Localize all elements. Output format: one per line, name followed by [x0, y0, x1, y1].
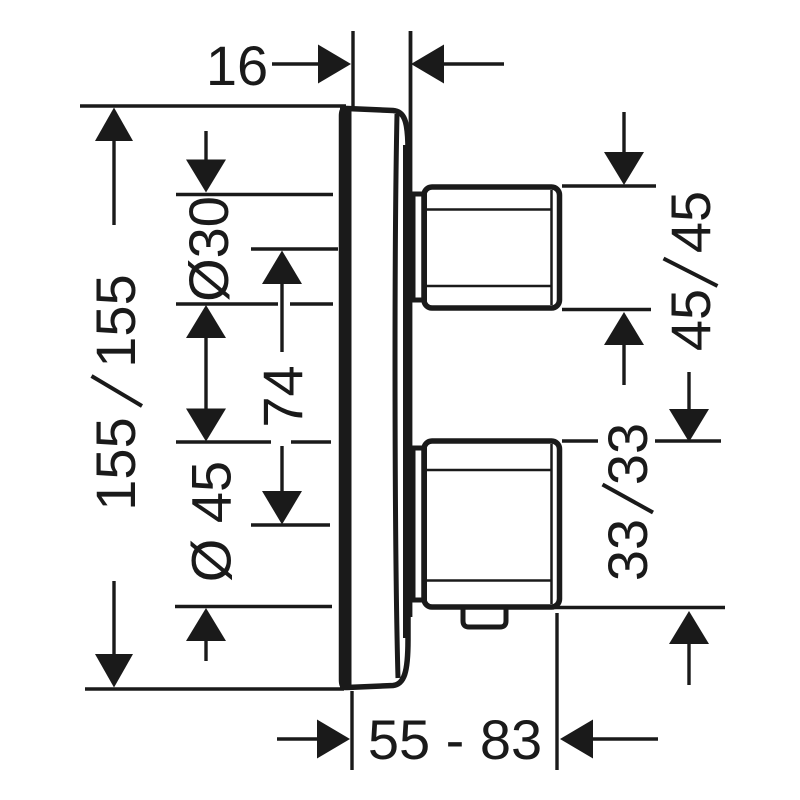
select button tab under bottom handle — [463, 609, 506, 627]
svg-text:45: 45 — [659, 191, 722, 253]
svg-text:Ø30: Ø30 — [177, 196, 240, 302]
bottom handle neck — [413, 448, 425, 600]
wall plane line (right of plate) — [409, 31, 413, 617]
bottom handle inner chamfer lines — [427, 469, 552, 472]
dimension Ø30 (neck diameter, upper left) — [204, 131, 207, 161]
top handle neck — [413, 194, 425, 300]
top handle body — [424, 187, 560, 308]
svg-text:16: 16 — [206, 34, 268, 97]
plate left face (thick bar) — [340, 107, 352, 690]
svg-text:155: 155 — [84, 417, 147, 510]
dimension 155/155 (overall height, left) — [80, 104, 346, 107]
dimension Ø45 (bottom handle diameter, lower left) — [186, 409, 226, 442]
svg-text:55 - 83: 55 - 83 — [368, 708, 542, 771]
bottom handle body — [424, 441, 560, 607]
svg-text:Ø 45: Ø 45 — [180, 461, 243, 582]
plate face extension line (top) — [351, 31, 354, 107]
svg-text:33: 33 — [596, 423, 659, 485]
svg-text:45: 45 — [659, 289, 722, 351]
plate front silhouette line — [395, 114, 398, 678]
svg-text:74: 74 — [251, 365, 314, 427]
escutcheon plate outline — [342, 109, 409, 688]
svg-text:33: 33 — [596, 519, 659, 581]
dimension 33/33 (bottom handle, right) — [687, 372, 690, 410]
top handle inner chamfer lines — [427, 208, 552, 211]
svg-text:155: 155 — [84, 274, 147, 367]
dimension 45/45 (top handle, right) — [622, 112, 625, 153]
dimension 55 - 83 (depth range, bottom) — [350, 691, 353, 770]
plate right edge thickening — [403, 145, 410, 638]
dimension 74 (handle spacing) — [251, 247, 338, 250]
